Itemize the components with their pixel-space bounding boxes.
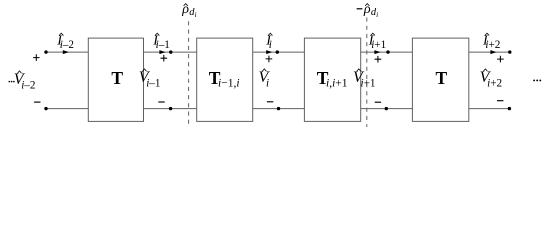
junction dot bottom 4 (508, 107, 511, 110)
minus sign port 0 (34, 101, 40, 103)
hat over rho 2 (365, 4, 369, 6)
svg-text:i–1: i–1 (146, 77, 160, 89)
junction dot bottom 2 (277, 107, 280, 110)
hat over I_{i+1} (371, 33, 375, 35)
svg-text:i−1,i: i−1,i (218, 78, 240, 90)
svg-text:T: T (436, 68, 448, 88)
wire top segment 2 (253, 51, 305, 53)
svg-text:i: i (269, 39, 272, 51)
hat over rho 1 (184, 4, 188, 6)
hat over V_{i+2} (483, 69, 487, 71)
wire bottom segment 2 (253, 108, 305, 110)
plus sign port 3 (375, 56, 382, 63)
two-port block U2 (T_i-1,i) (197, 38, 253, 121)
junction dot top 0 (44, 50, 47, 53)
hat over I_{i+2} (485, 33, 489, 35)
junction dot bottom 3 (385, 107, 388, 110)
hat over V_{i+1} (357, 69, 361, 71)
two-port block U1 (T) (88, 38, 143, 121)
current arrow 4 (490, 50, 496, 54)
wire bottom segment 3 (361, 108, 413, 110)
svg-text:i–2: i–2 (21, 79, 35, 91)
svg-text:i+1: i+1 (371, 39, 386, 51)
svg-text:T: T (111, 68, 123, 88)
hat over I_{i-2} (59, 33, 63, 35)
wire top segment 4 (469, 51, 510, 53)
junction dot top 1 (169, 50, 172, 53)
current arrow 1 (159, 50, 165, 54)
svg-text:i: i (376, 10, 378, 19)
svg-text:i,i+1: i,i+1 (326, 78, 348, 90)
dashed reference plane d_i (left) (188, 21, 190, 127)
current arrow 0 (63, 50, 69, 54)
two-port block U3 (T_i,i+1) (304, 38, 360, 121)
svg-text:i+2: i+2 (487, 77, 502, 89)
label -rho_{d_i} plane 2 (357, 8, 363, 10)
wire top segment 3 (361, 51, 413, 53)
wire bottom segment 1 (144, 108, 197, 110)
two-port block U4 (T) (412, 38, 468, 121)
junction dot bottom 0 (44, 107, 47, 110)
minus sign port 2 (267, 101, 273, 103)
svg-text:i+2: i+2 (485, 39, 500, 51)
hat over I_i (268, 33, 272, 35)
hat over V_{i-1} (143, 69, 147, 71)
svg-text:i–2: i–2 (60, 39, 74, 51)
dashed reference plane d_i (right) (366, 18, 368, 128)
junction dot top 2 (276, 50, 279, 53)
plus sign port 2 (266, 56, 273, 63)
hat over V_{i-2} (18, 71, 22, 73)
current arrow 3 (374, 50, 380, 54)
wire bottom segment 0 (46, 108, 88, 110)
hat over I_{i-1} (155, 33, 159, 35)
minus sign port 3 (375, 101, 381, 103)
wire bottom segment 4 (469, 108, 510, 110)
ellipsis left (9, 81, 11, 83)
plus sign port 1 (161, 55, 168, 62)
svg-text:i+1: i+1 (361, 77, 376, 89)
wire top segment 1 (144, 51, 197, 53)
ellipsis right (533, 79, 535, 81)
wire top segment 0 (46, 51, 88, 53)
svg-text:i: i (266, 77, 269, 89)
junction dot bottom 1 (169, 107, 172, 110)
svg-text:i–1: i–1 (156, 39, 170, 51)
minus sign port 4 (497, 100, 503, 102)
plus sign port 0 (33, 54, 40, 61)
plus sign port 4 (497, 56, 504, 63)
junction dot top 4 (508, 50, 511, 53)
hat over V_i (262, 69, 266, 71)
minus sign port 1 (158, 101, 164, 103)
current arrow 2 (266, 50, 272, 54)
junction dot top 3 (386, 50, 389, 53)
svg-text:i: i (195, 10, 197, 19)
